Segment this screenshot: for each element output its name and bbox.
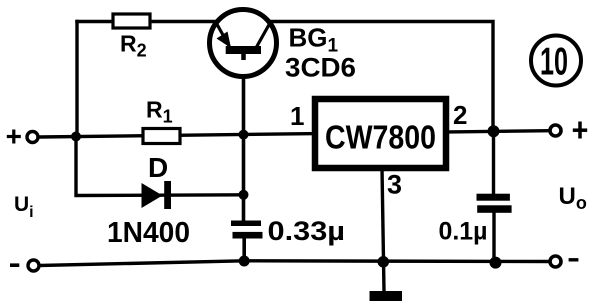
svg-text:D: D: [148, 152, 168, 183]
svg-text:0.1µ: 0.1µ: [439, 218, 488, 246]
svg-text:1: 1: [290, 101, 304, 131]
svg-text:3: 3: [387, 170, 402, 200]
svg-text:10: 10: [540, 41, 568, 84]
svg-text:3CD6: 3CD6: [285, 53, 356, 83]
svg-text:0.33µ: 0.33µ: [268, 216, 346, 246]
svg-text:2: 2: [453, 100, 467, 130]
svg-text:CW7800: CW7800: [325, 119, 436, 156]
svg-text:1N400: 1N400: [107, 217, 190, 249]
